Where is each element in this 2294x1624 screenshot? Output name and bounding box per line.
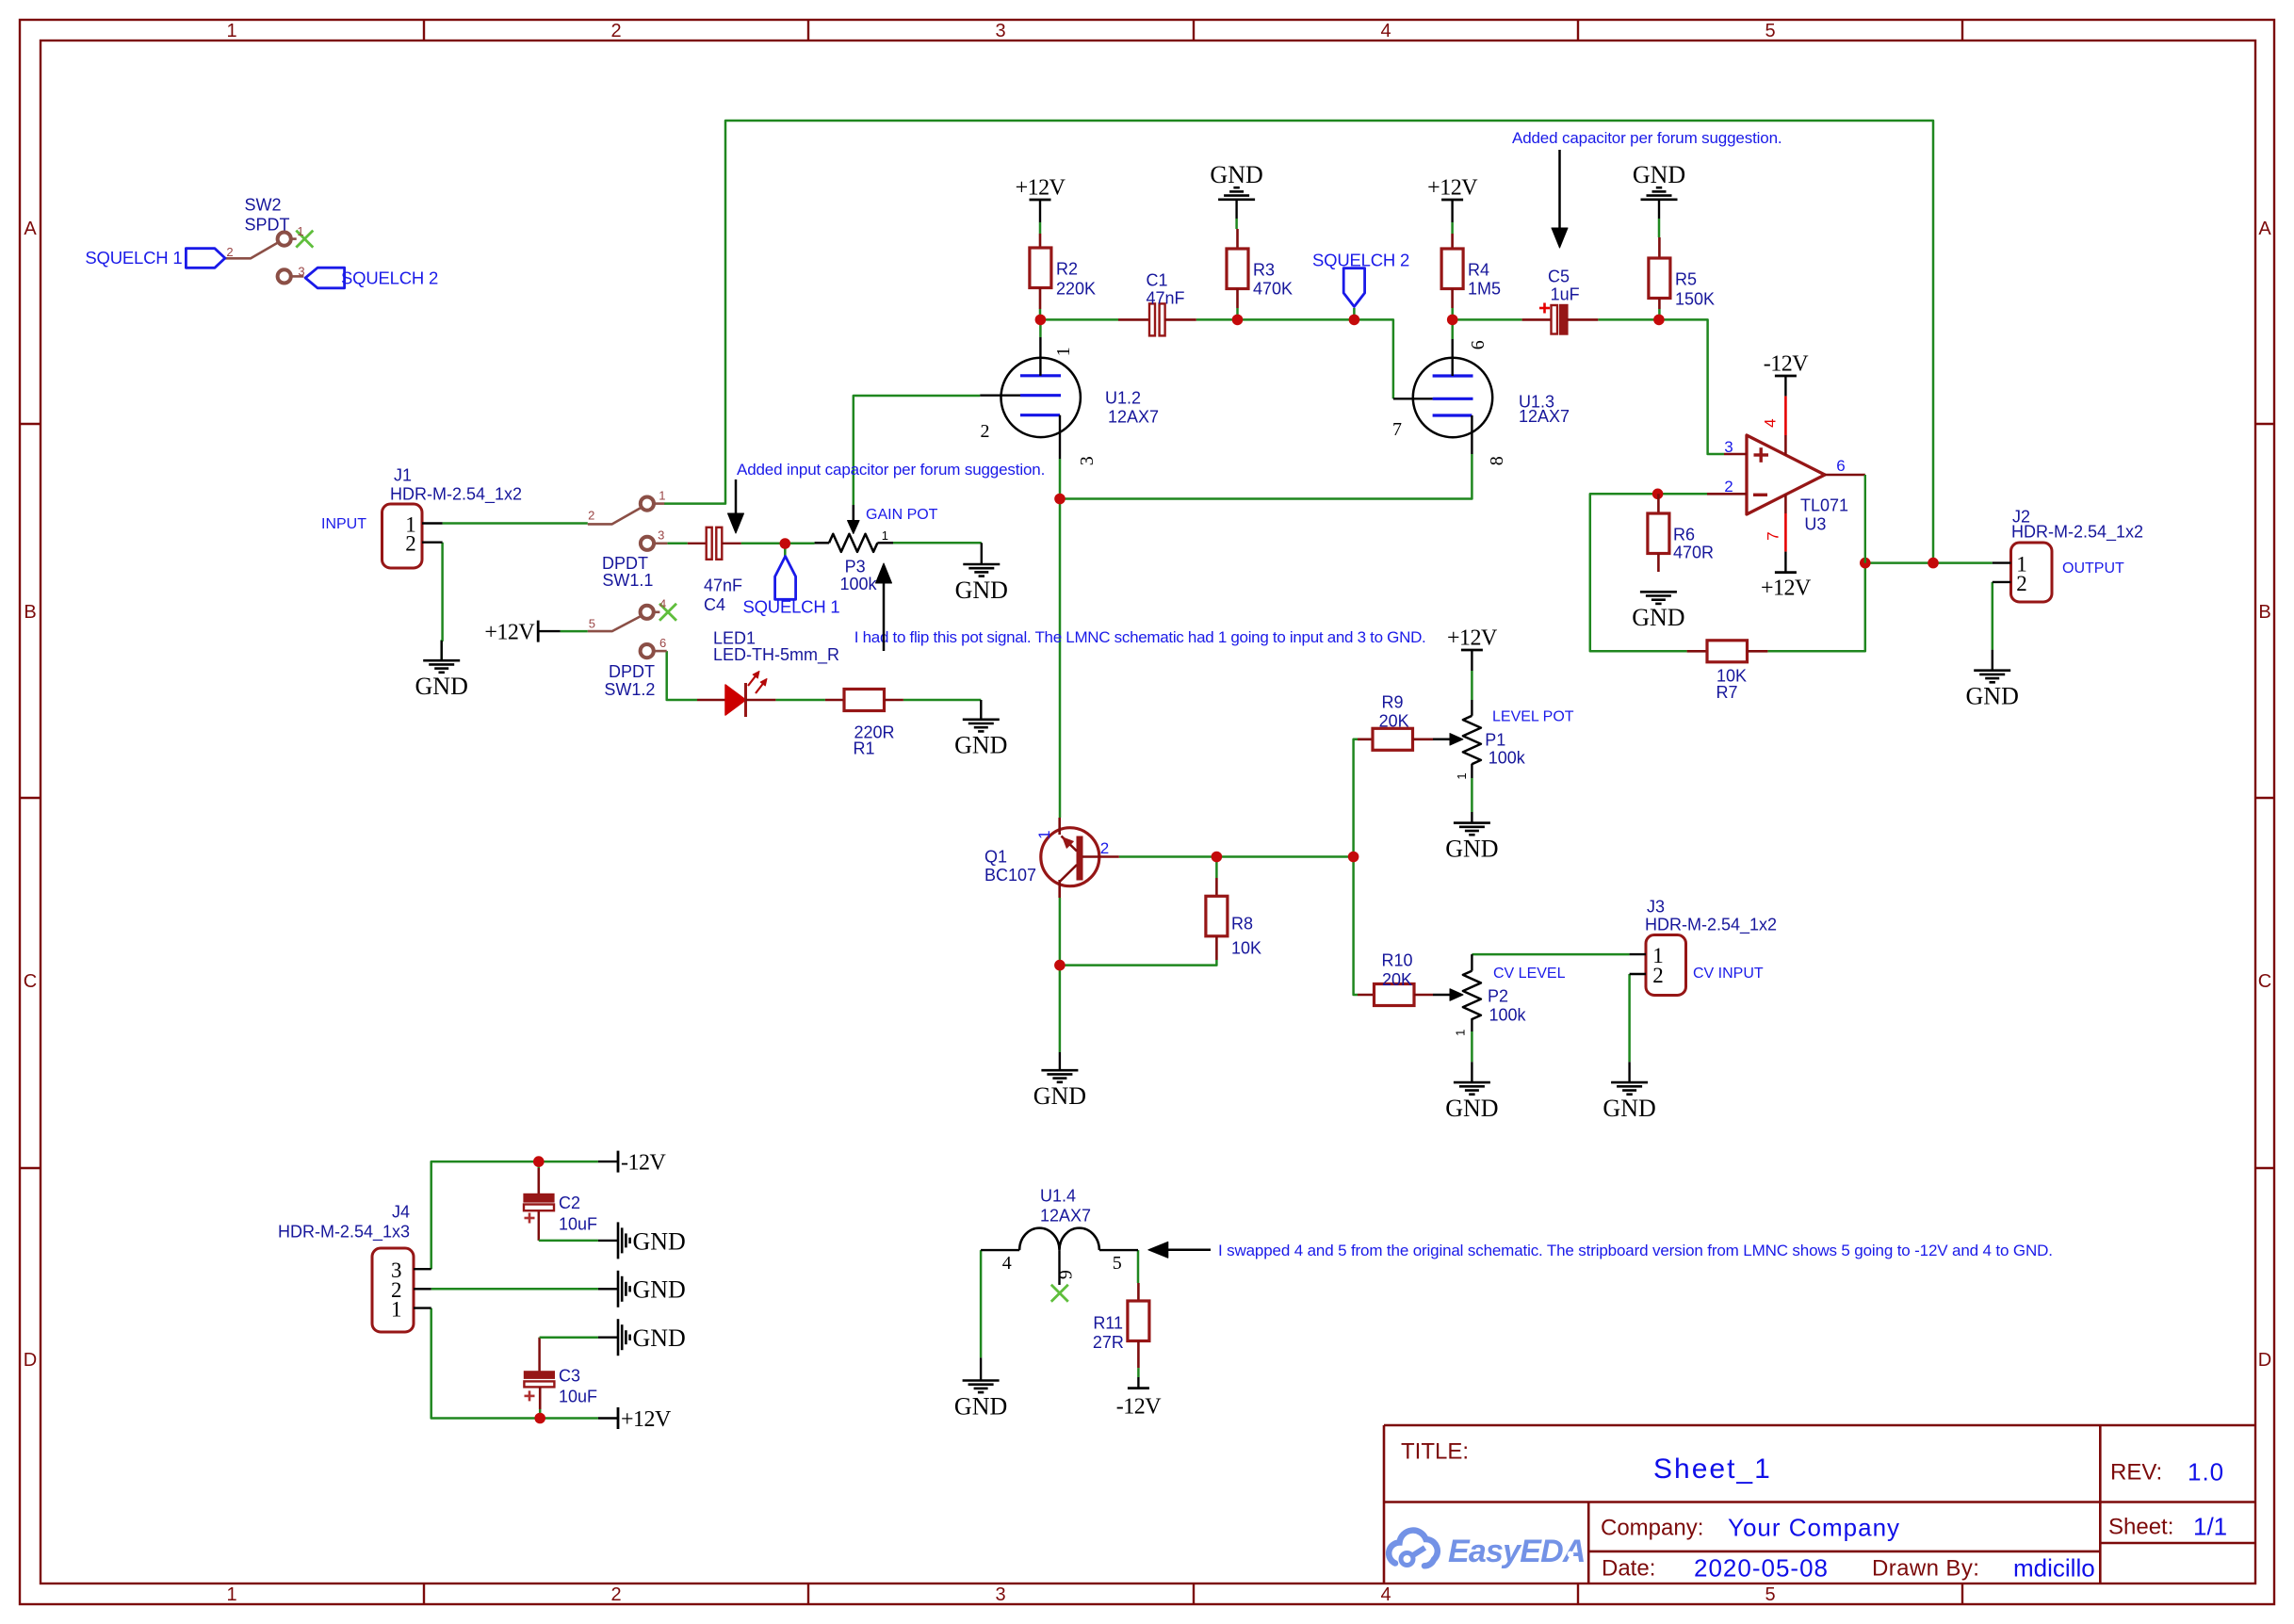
junction collector/R8 [1212,852,1223,863]
wire U1.3 anode pin to junction [1451,319,1454,339]
svg-text:HDR-M-2.54_1x2: HDR-M-2.54_1x2 [1645,915,1777,934]
svg-text:R2: R2 [1056,259,1078,278]
svg-text:GND: GND [415,673,468,700]
wire +12V to R2 [1039,222,1042,234]
junction SQUELCH2 flag on bus [1349,315,1360,326]
svg-text:LED-TH-5mm_R: LED-TH-5mm_R [713,645,839,665]
svg-text:220K: 220K [1056,279,1096,298]
wire R2 to bus junction [1039,309,1042,320]
wire U1.3 cathode to shared cathode node [1060,454,1472,499]
svg-text:GAIN POT: GAIN POT [866,507,938,523]
svg-text:P2: P2 [1488,986,1508,1005]
wire squelch1 flag stub [784,544,787,557]
svg-text:47nF: 47nF [1146,288,1184,307]
wire LED to R1 [775,699,825,702]
svg-text:100k: 100k [1489,1005,1527,1024]
svg-text:R5: R5 [1675,269,1697,288]
no-connect X at SW2 pin1 [296,231,313,248]
svg-text:BC107: BC107 [984,866,1036,885]
svg-text:10uF: 10uF [559,1214,597,1233]
wire C1 to R3 to squelch2 to U1.3 grid corner [1196,319,1393,398]
junction output/feedback [1860,558,1871,569]
wire R4 junction to C5 [1453,318,1522,321]
svg-text:-12V: -12V [1764,352,1809,377]
svg-text:Sheet_1: Sheet_1 [1653,1453,1772,1485]
wire SW1.1 pin3 to C4 [667,543,687,545]
svg-text:+12V: +12V [1427,176,1478,201]
wire R8 branch down [1215,857,1218,879]
svg-text:-12V: -12V [1116,1395,1162,1420]
op-amp input pin lines [1724,453,1747,456]
svg-text:470K: 470K [1253,279,1293,298]
svg-text:R10: R10 [1381,950,1412,969]
svg-text:R9: R9 [1381,692,1403,711]
svg-text:I swapped 4 and 5 from the ori: I swapped 4 and 5 from the original sche… [1218,1242,2053,1259]
svg-text:4: 4 [1380,21,1391,41]
svg-text:1: 1 [1455,772,1469,779]
svg-text:GND: GND [1603,1095,1655,1122]
potentiometer P3 GAIN POT [815,542,829,544]
resistor R2 220K [1039,234,1042,248]
svg-text:INPUT: INPUT [321,516,366,532]
ground above R3 [1218,199,1255,202]
junction R3 on bus [1232,315,1244,326]
resistor R5 150K [1658,237,1661,258]
resistor R9 20K [1358,738,1374,740]
svg-text:12AX7: 12AX7 [1040,1206,1091,1225]
junction C3 bottom [534,1413,545,1424]
svg-text:GND: GND [1033,1082,1086,1110]
svg-text:OUTPUT: OUTPUT [2062,560,2124,577]
EasyEDA logo [1389,1531,1438,1567]
junction R8 bottom/Q1 emitter [1054,960,1066,971]
wire top bus from SW1.1 pin1 up and across to output [664,121,1933,563]
svg-text:Added input capacitor per foru: Added input capacitor per forum suggesti… [737,461,1045,479]
svg-text:C5: C5 [1548,267,1570,285]
junction C4/P3/SQUELCH1 [780,538,791,549]
P3 wiper arrow [853,505,855,522]
svg-text:2: 2 [226,245,233,259]
svg-text:EasyEDA: EasyEDA [1448,1534,1586,1569]
wire R3 bottom [1236,308,1239,319]
wire R1 to GND [903,699,981,702]
svg-text:2: 2 [610,1584,621,1605]
power flag +12V at SW1.2 pin5 [537,621,540,642]
switch SW1.1 pad pin1 [641,497,654,511]
svg-text:6: 6 [1836,457,1845,475]
wire R7 left to op-amp pin2 [1590,494,1707,651]
wire R5 top to GND [1658,219,1661,237]
svg-text:1: 1 [226,1584,236,1605]
R9 wiper arrow into P1 [1433,739,1451,741]
C2 plus sign [525,1217,535,1220]
svg-text:SW1.1: SW1.1 [602,571,653,590]
svg-text:SQUELCH 1: SQUELCH 1 [85,248,182,268]
svg-text:4: 4 [659,597,666,611]
LED1 diode [697,699,725,702]
svg-text:P1: P1 [1485,730,1505,749]
svg-text:10uF: 10uF [559,1387,597,1405]
wire R3 top to GND [1235,219,1238,229]
capacitor C5 1uF polarized [1522,318,1552,321]
wire R5 junction to op-amp pin3 [1659,319,1724,454]
svg-text:U1.2: U1.2 [1105,388,1141,407]
net flag SQUELCH 2 at SW2 [305,268,345,288]
svg-text:1: 1 [1053,347,1074,356]
resistor R7 10K feedback [1687,650,1707,653]
svg-text:Date:: Date: [1602,1556,1655,1582]
wire SW1.2 +12V to pin5 [561,630,588,633]
net flag SQUELCH 2 on bus [1343,268,1364,307]
svg-text:J3: J3 [1647,897,1665,916]
svg-text:GND: GND [1966,683,2019,710]
svg-text:P3: P3 [845,558,866,577]
wire J4 pin2 to GND [431,1288,598,1291]
svg-text:I had to flip this pot signal.: I had to flip this pot signal. The LMNC … [854,628,1426,646]
svg-text:2: 2 [610,21,621,41]
wire R4 bottom junction [1451,308,1454,319]
svg-text:6: 6 [659,636,666,650]
svg-text:GND: GND [633,1227,686,1255]
wire P2 top to J3 pin1 [1472,953,1629,956]
ground at J2 pin2 [1974,669,2010,672]
annotation arrow to C5 [1558,150,1561,229]
svg-text:SW2: SW2 [245,195,282,214]
junction collector/R9/R10 [1348,852,1359,863]
svg-text:D: D [2258,1350,2271,1371]
wire J1 pin1 to SW1.1 pin2 [443,522,588,525]
annotation arrow to C4 [735,479,738,514]
power +12V at P1 [1461,649,1483,652]
net flag SQUELCH 1 at C4 [775,557,796,600]
wire J2 pin2 to GND [1992,582,1994,650]
wire J4 pin3 to -12V rail [431,1161,598,1269]
svg-text:100k: 100k [839,575,877,593]
svg-text:DPDT: DPDT [602,554,648,573]
wire P2 bottom to GND [1471,1031,1473,1062]
svg-text:20K: 20K [1379,711,1409,730]
svg-text:2: 2 [1100,839,1109,857]
svg-text:Drawn By:: Drawn By: [1872,1556,1979,1582]
svg-text:1M5: 1M5 [1468,279,1501,298]
svg-text:150K: 150K [1675,289,1715,308]
switch SW1.1 pad pin3 [641,537,654,550]
svg-text:TITLE:: TITLE: [1401,1439,1469,1465]
switch SW1.2 pad pin6 [641,644,654,658]
svg-text:GND: GND [1445,1095,1498,1122]
svg-text:470R: 470R [1673,543,1714,561]
svg-text:3: 3 [298,265,304,279]
C3 plus sign [525,1395,535,1398]
svg-text:B: B [2258,602,2270,623]
svg-text:5: 5 [1113,1253,1122,1274]
no-connect X at U1.4 pin9 [1051,1285,1068,1302]
svg-text:3: 3 [995,1584,1005,1605]
svg-text:GND: GND [955,577,1008,604]
power -12V at R11 [1128,1387,1149,1389]
svg-text:12AX7: 12AX7 [1519,407,1570,426]
resistor R10 20K [1358,994,1375,997]
svg-text:B: B [24,602,36,623]
ground sideways at C2 [617,1222,620,1259]
svg-text:+12V: +12V [1016,176,1066,201]
switch SW2 pin2 lever [225,243,278,259]
ground sideways at J4 pin2 [617,1271,620,1307]
svg-text:2: 2 [1724,478,1733,495]
power -12V at op-amp [1775,375,1797,378]
svg-text:7: 7 [1392,419,1402,440]
annotation arrow swapped pins [1148,1242,1168,1258]
svg-text:-12V: -12V [621,1151,666,1176]
power flag -12V at J4 rail [617,1151,620,1173]
connector J4 [372,1248,414,1332]
wire U1.2 cathode down to Q1 emitter [1059,459,1062,818]
switch SW1.2 lever [588,616,641,631]
svg-text:9: 9 [1056,1270,1077,1279]
switch SW1.2 pad pin4 [641,606,654,619]
svg-text:2: 2 [1652,964,1664,987]
svg-text:1: 1 [1453,1030,1467,1036]
wire C2 bottom to GND [538,1210,541,1241]
wire P1 top +12V [1471,671,1473,700]
potentiometer P1 LEVEL POT [1463,716,1481,764]
wire C2 top junction [538,1161,541,1168]
annotation arrow to P3 [883,582,886,651]
svg-text:C2: C2 [559,1194,580,1212]
svg-text:A: A [24,219,37,239]
svg-text:A: A [2258,219,2271,239]
svg-text:GND: GND [1445,835,1498,862]
svg-text:7: 7 [1765,531,1782,540]
wire J4 pin1 to +12V rail [431,1308,598,1419]
svg-text:5: 5 [589,617,595,631]
svg-text:GND: GND [954,732,1007,759]
wire Q1 emitter to GND [1059,898,1062,1052]
svg-text:C3: C3 [559,1366,580,1385]
wire R4 top +12V [1451,222,1454,234]
resistor R6 470R [1657,494,1660,513]
svg-text:1: 1 [391,1297,402,1321]
wire squelch2 flag stub [1353,308,1356,319]
svg-text:REV:: REV: [2110,1460,2162,1486]
svg-text:2: 2 [981,421,990,442]
power +12V at R4 [1441,199,1463,202]
capacitor C2 10uF polarized [537,1168,540,1194]
svg-text:U3: U3 [1804,514,1826,533]
wire Q1 collector to R10 branch [1119,855,1354,858]
svg-text:3: 3 [995,21,1005,41]
ground at J3 pin2 [1611,1081,1648,1084]
svg-text:1: 1 [297,224,303,238]
junction R2/C1/U1.2 anode [1035,315,1047,326]
triode U1.3 12AX7 [1413,358,1492,437]
svg-text:100k: 100k [1489,748,1526,767]
wire C4 to P3 with squelch tap [741,543,815,545]
svg-text:C4: C4 [704,595,725,614]
R10 wiper arrow into P2 [1433,994,1451,997]
svg-text:10K: 10K [1231,938,1261,957]
power +12V at op-amp [1775,571,1797,574]
wire U1.2 anode pin up to junction [1039,320,1042,337]
transistor Q1 BC107 [1041,828,1099,886]
wire junction down to R10 [1354,857,1358,996]
svg-text:2: 2 [405,531,416,555]
svg-text:U1.4: U1.4 [1040,1186,1076,1205]
svg-text:C: C [2258,971,2271,992]
svg-text:1: 1 [226,21,236,41]
svg-text:R1: R1 [853,739,874,757]
svg-text:Q1: Q1 [984,847,1007,866]
connector J2 [2011,543,2053,602]
wire SW1.2 pin6 to LED [667,651,697,700]
ground above R5 [1641,199,1678,202]
svg-text:J4: J4 [392,1202,410,1221]
switch SW2 pad pin1 [278,233,291,246]
svg-text:GND: GND [1633,161,1685,188]
svg-text:SQUELCH 2: SQUELCH 2 [341,268,438,288]
svg-text:12AX7: 12AX7 [1108,407,1159,426]
svg-text:1.0: 1.0 [2188,1457,2224,1486]
svg-text:GND: GND [633,1276,686,1304]
power +12V at R2 [1030,199,1051,202]
resistor R11 27R [1137,1283,1140,1303]
wire J3 pin2 down to GND [1628,974,1631,1062]
svg-text:SPDT: SPDT [245,215,290,234]
svg-text:GND: GND [633,1324,686,1352]
svg-text:2: 2 [588,509,594,523]
resistor R3 470K [1236,229,1239,249]
svg-text:HDR-M-2.54_1x3: HDR-M-2.54_1x3 [278,1222,410,1242]
wire U1.4 pin5 to R11 [1137,1250,1140,1283]
ground at P1 [1454,821,1490,824]
wire R8 bottom to Q1 emitter node [1060,960,1217,966]
svg-text:Added capacitor per forum sugg: Added capacitor per forum suggestion. [1512,129,1782,147]
svg-text:GND: GND [1210,161,1262,188]
svg-text:27R: 27R [1093,1333,1124,1352]
LED1 emission arrows [748,674,757,686]
svg-text:4: 4 [1380,1584,1391,1605]
svg-text:mdicillo: mdicillo [2013,1553,2095,1582]
svg-text:SQUELCH 2: SQUELCH 2 [1312,251,1409,270]
svg-text:5: 5 [1765,21,1775,41]
svg-text:Company:: Company: [1601,1516,1703,1541]
net flag SQUELCH 1 at SW2 [186,249,225,268]
svg-text:4: 4 [1002,1253,1012,1274]
svg-text:R3: R3 [1253,260,1275,279]
resistor R4 1M5 [1451,234,1454,249]
resistor R8 10K [1215,878,1218,896]
svg-text:R11: R11 [1093,1313,1123,1332]
svg-text:47nF: 47nF [704,576,742,594]
svg-text:1: 1 [1035,830,1053,838]
ground at P2 [1454,1081,1490,1084]
svg-text:SW1.2: SW1.2 [604,680,655,699]
title block outline [1384,1424,2255,1427]
wire bus junction to C1 [1040,318,1118,321]
svg-text:2: 2 [2016,572,2027,595]
wire op-amp output to J2 [1865,561,1993,564]
capacitor C4 47nF [688,543,707,544]
svg-text:R7: R7 [1716,683,1737,702]
ground at P3 [963,563,1000,566]
wire C3 top to GND [538,1338,541,1372]
triode heater U1.4 12AX7 [1019,1228,1099,1251]
C5 plus sign [1539,307,1550,310]
svg-text:1/1: 1/1 [2193,1512,2227,1540]
svg-text:DPDT: DPDT [609,662,655,681]
capacitor C1 47nF [1118,318,1149,321]
svg-text:+12V: +12V [621,1407,672,1432]
junction output/top bus [1928,558,1939,569]
svg-text:D: D [24,1350,37,1371]
svg-text:LEVEL POT: LEVEL POT [1492,708,1574,724]
junction R4/C5/U1.3 anode [1447,315,1458,326]
svg-text:1uF: 1uF [1551,284,1580,303]
svg-text:TL071: TL071 [1800,495,1848,514]
switch SW2 pad pin3 [278,269,291,283]
power flag +12V at J4 rail [617,1407,620,1429]
ground at U1.4 pin4 [963,1379,1000,1382]
svg-text:C1: C1 [1146,270,1167,289]
svg-text:HDR-M-2.54_1x2: HDR-M-2.54_1x2 [2011,522,2143,542]
wire J1 pin2 down to GND [440,543,443,661]
svg-text:CV LEVEL: CV LEVEL [1493,966,1566,982]
wire C3 bottom junction [539,1409,542,1419]
svg-text:2020-05-08: 2020-05-08 [1694,1553,1829,1582]
svg-text:8: 8 [1487,456,1507,465]
wire junction up to R9 [1354,739,1358,857]
wire P3 wiper to U1.2 grid [854,396,981,505]
svg-text:Sheet:: Sheet: [2108,1515,2173,1540]
switch SW1.1 lever [588,508,641,524]
wire P3 right to GND [893,542,982,544]
no-connect X at SW1.2 pin4 [659,604,676,621]
svg-text:4: 4 [1762,418,1780,427]
svg-text:HDR-M-2.54_1x2: HDR-M-2.54_1x2 [390,484,522,504]
ground at R6 [1640,591,1677,593]
svg-text:CV INPUT: CV INPUT [1693,966,1764,982]
svg-text:C: C [24,971,37,992]
junction R6/op-amp pin2 [1652,489,1664,500]
svg-text:+12V: +12V [484,621,535,645]
svg-text:R8: R8 [1231,914,1253,933]
wire R5 bottom [1658,309,1661,319]
connector J3 [1646,935,1686,996]
junction C2 top [533,1156,545,1167]
triode U1.2 12AX7 [1001,358,1081,437]
op-amp output pin [1825,474,1865,477]
svg-text:R4: R4 [1468,260,1489,279]
wire R11 bottom to -12V [1137,1368,1140,1377]
ground sideways at C3 [617,1319,620,1356]
svg-text:1: 1 [882,528,888,543]
svg-text:1: 1 [659,488,665,502]
junction cathode node [1054,494,1066,505]
svg-text:SQUELCH 1: SQUELCH 1 [742,597,839,617]
ground at Q1 emitter [1041,1069,1078,1072]
op-amp U3 TL071 [1747,435,1825,514]
svg-text:6: 6 [1468,340,1489,349]
capacitor C3 10uF polarized [524,1372,554,1379]
svg-text:20K: 20K [1382,970,1412,989]
ground at R1 [963,718,1000,721]
wire feedback loop R7 [1767,563,1864,652]
connector J1 [382,504,423,568]
ground at J1 pin2 [423,659,460,662]
wire U1.4 pin4 to GND [980,1250,983,1357]
wire C5 to R5 junction [1598,318,1659,321]
wire P1 bottom to GND [1471,778,1473,812]
